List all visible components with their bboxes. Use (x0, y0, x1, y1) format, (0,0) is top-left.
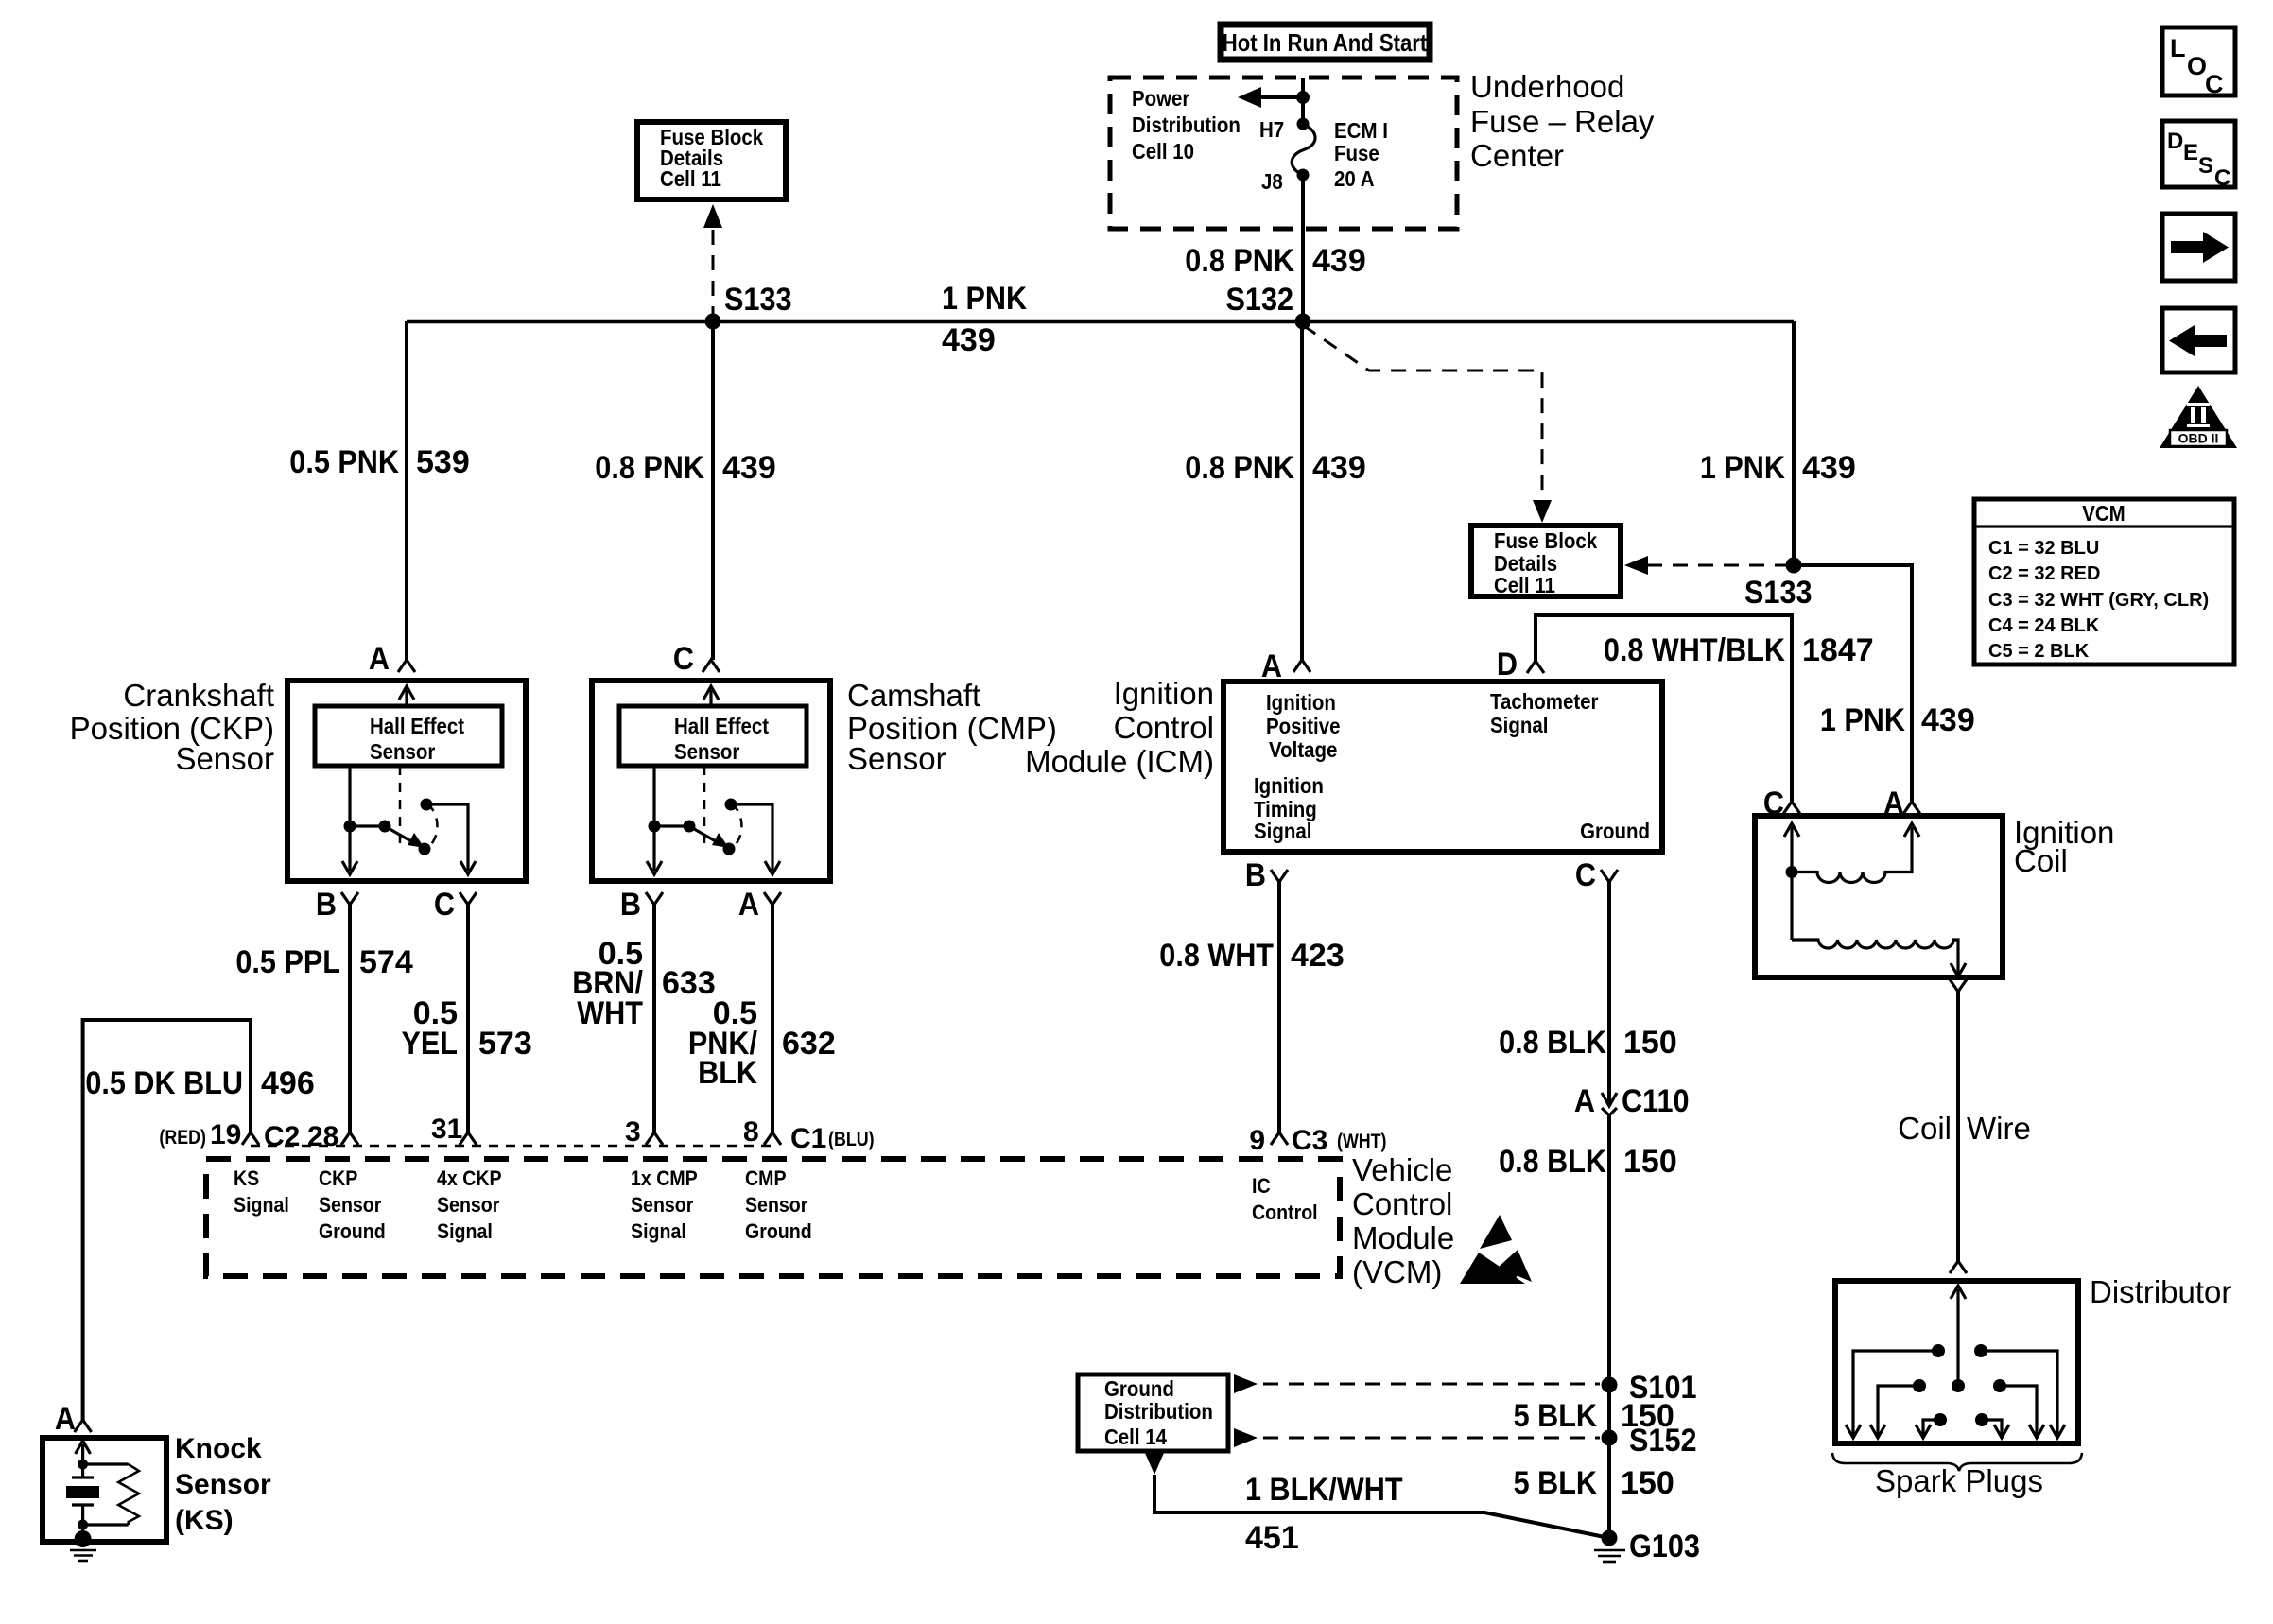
svg-text:Hall Effect: Hall Effect (674, 714, 769, 738)
svg-text:Cell 11: Cell 11 (1494, 573, 1555, 597)
svg-text:Sensor: Sensor (847, 741, 946, 776)
svg-text:0.5 PNK: 0.5 PNK (289, 444, 399, 480)
svg-text:Vehicle: Vehicle (1352, 1152, 1452, 1187)
svg-text:Sensor: Sensor (319, 1193, 382, 1217)
svg-text:0.8 WHT: 0.8 WHT (1159, 938, 1274, 974)
svg-text:Control: Control (1352, 1186, 1452, 1221)
svg-text:A: A (369, 641, 390, 677)
svg-text:A: A (738, 887, 759, 923)
svg-text:1847: 1847 (1802, 632, 1874, 668)
svg-text:632: 632 (782, 1026, 836, 1062)
svg-text:Fuse Block: Fuse Block (1494, 528, 1597, 553)
svg-text:Crankshaft: Crankshaft (123, 678, 274, 713)
svg-text:496: 496 (261, 1065, 315, 1101)
svg-text:Hot In Run And Start: Hot In Run And Start (1223, 28, 1428, 57)
svg-text:A: A (1261, 648, 1282, 684)
svg-text:C4 = 24 BLK: C4 = 24 BLK (1988, 615, 2100, 636)
svg-text:Signal: Signal (437, 1219, 493, 1243)
svg-text:439: 439 (942, 322, 996, 358)
svg-text:Distribution: Distribution (1104, 1399, 1213, 1424)
svg-text:C: C (2214, 165, 2230, 191)
svg-text:3: 3 (625, 1116, 641, 1148)
svg-text:J8: J8 (1261, 169, 1283, 194)
svg-text:439: 439 (1921, 702, 1975, 738)
svg-text:KS: KS (234, 1166, 259, 1190)
svg-text:0.8 PNK: 0.8 PNK (1185, 243, 1294, 279)
svg-text:Sensor: Sensor (437, 1193, 500, 1217)
svg-text:Power: Power (1132, 86, 1189, 111)
svg-text:O: O (2187, 52, 2207, 80)
svg-text:C2 = 32 RED: C2 = 32 RED (1988, 563, 2100, 584)
svg-text:5 BLK: 5 BLK (1514, 1398, 1598, 1434)
svg-text:Positive: Positive (1266, 714, 1341, 738)
svg-text:Voltage: Voltage (1269, 737, 1337, 762)
svg-text:Signal: Signal (234, 1193, 289, 1217)
svg-text:Control: Control (1252, 1201, 1318, 1224)
svg-text:Ignition: Ignition (1114, 676, 1214, 711)
svg-text:423: 423 (1291, 938, 1345, 974)
svg-text:C3: C3 (1292, 1125, 1327, 1156)
svg-text:Coil: Coil (2014, 843, 2068, 878)
svg-text:Signal: Signal (1490, 713, 1548, 737)
svg-text:C1: C1 (790, 1123, 826, 1154)
svg-text:C: C (673, 641, 694, 677)
svg-text:1x CMP: 1x CMP (631, 1166, 698, 1190)
svg-text:Wire: Wire (1967, 1111, 2031, 1146)
svg-text:1 PNK: 1 PNK (1700, 450, 1786, 486)
svg-text:S132: S132 (1226, 282, 1294, 318)
svg-text:Signal: Signal (1254, 819, 1311, 843)
svg-text:Control: Control (1114, 710, 1214, 745)
svg-text:Cell 14: Cell 14 (1104, 1425, 1167, 1449)
svg-text:Center: Center (1470, 138, 1564, 173)
svg-text:8: 8 (743, 1116, 759, 1148)
svg-text:28: 28 (307, 1121, 338, 1152)
svg-text:L: L (2170, 34, 2186, 62)
svg-text:574: 574 (359, 944, 413, 980)
svg-text:(VCM): (VCM) (1352, 1254, 1442, 1289)
svg-text:ECM I: ECM I (1334, 118, 1388, 143)
svg-text:YEL: YEL (402, 1026, 459, 1062)
svg-text:Signal: Signal (631, 1219, 686, 1243)
svg-text:Sensor: Sensor (631, 1193, 694, 1217)
svg-text:Fuse: Fuse (1334, 141, 1379, 165)
svg-text:Ground: Ground (1580, 819, 1650, 843)
svg-text:5 BLK: 5 BLK (1514, 1465, 1598, 1501)
svg-text:1 PNK: 1 PNK (942, 281, 1028, 317)
svg-text:CMP: CMP (745, 1166, 787, 1190)
svg-text:C5 = 2 BLK: C5 = 2 BLK (1988, 641, 2090, 662)
svg-text:Cell 11: Cell 11 (660, 166, 721, 191)
svg-text:BLK: BLK (698, 1055, 757, 1091)
svg-text:Distribution: Distribution (1132, 112, 1241, 137)
svg-text:1 PNK: 1 PNK (1820, 702, 1906, 738)
svg-text:Module (ICM): Module (ICM) (1025, 744, 1214, 779)
svg-text:C3 = 32 WHT (GRY, CLR): C3 = 32 WHT (GRY, CLR) (1988, 590, 2209, 611)
svg-text:633: 633 (662, 965, 716, 1001)
svg-text:OBD II: OBD II (2178, 431, 2219, 446)
svg-text:0.5 PPL: 0.5 PPL (235, 944, 340, 980)
svg-text:(RED): (RED) (159, 1127, 206, 1149)
svg-text:Fuse – Relay: Fuse – Relay (1470, 104, 1655, 139)
svg-text:C: C (2205, 70, 2224, 98)
svg-text:D: D (2167, 129, 2183, 154)
svg-text:4x CKP: 4x CKP (437, 1166, 502, 1190)
svg-text:Camshaft: Camshaft (847, 678, 980, 713)
svg-text:H7: H7 (1259, 117, 1284, 142)
svg-text:Ignition: Ignition (1266, 690, 1336, 715)
svg-text:A: A (1574, 1083, 1595, 1119)
svg-text:Knock: Knock (175, 1433, 262, 1464)
svg-text:Sensor: Sensor (745, 1193, 808, 1217)
svg-text:Sensor: Sensor (674, 739, 739, 764)
svg-text:Spark Plugs: Spark Plugs (1875, 1463, 2043, 1498)
svg-text:B: B (620, 887, 641, 923)
svg-text:VCM: VCM (2082, 501, 2126, 526)
svg-text:Sensor: Sensor (175, 741, 274, 776)
svg-text:CKP: CKP (319, 1166, 357, 1190)
svg-text:0.8 BLK: 0.8 BLK (1499, 1025, 1606, 1061)
svg-text:A: A (1883, 786, 1904, 821)
svg-text:0.8 WHT/BLK: 0.8 WHT/BLK (1604, 632, 1785, 668)
svg-text:1 BLK/WHT: 1 BLK/WHT (1245, 1472, 1403, 1508)
svg-text:Cell 10: Cell 10 (1132, 139, 1194, 164)
svg-text:150: 150 (1621, 1465, 1674, 1501)
svg-text:S133: S133 (724, 282, 792, 318)
svg-text:539: 539 (416, 444, 470, 480)
svg-text:C110: C110 (1622, 1083, 1690, 1119)
svg-text:Ground: Ground (745, 1219, 812, 1243)
svg-text:Underhood: Underhood (1470, 69, 1624, 104)
svg-text:Ground: Ground (1104, 1376, 1174, 1401)
svg-text:19: 19 (210, 1119, 241, 1150)
svg-text:C1 = 32 BLU: C1 = 32 BLU (1988, 538, 2099, 559)
svg-text:Hall Effect: Hall Effect (370, 714, 464, 738)
svg-text:C2: C2 (264, 1121, 300, 1152)
svg-text:D: D (1497, 647, 1518, 682)
svg-text:20 A: 20 A (1334, 166, 1375, 191)
svg-text:C: C (1575, 857, 1596, 893)
svg-text:E: E (2183, 140, 2198, 165)
svg-text:(WHT): (WHT) (1337, 1131, 1387, 1152)
svg-text:0.8 BLK: 0.8 BLK (1499, 1144, 1606, 1180)
svg-text:Module: Module (1352, 1220, 1454, 1255)
svg-text:Sensor: Sensor (370, 739, 435, 764)
svg-text:B: B (1245, 857, 1266, 893)
svg-text:Ground: Ground (319, 1219, 386, 1243)
svg-text:439: 439 (1802, 450, 1856, 486)
svg-text:C: C (1763, 786, 1784, 821)
svg-text:31: 31 (431, 1114, 462, 1145)
svg-text:150: 150 (1623, 1025, 1677, 1061)
svg-text:S: S (2198, 153, 2213, 179)
svg-text:WHT: WHT (577, 995, 643, 1031)
svg-text:9: 9 (1249, 1125, 1265, 1156)
svg-text:451: 451 (1245, 1520, 1299, 1556)
svg-text:G103: G103 (1629, 1529, 1700, 1564)
svg-text:0.8 PNK: 0.8 PNK (1185, 450, 1294, 486)
svg-text:Sensor: Sensor (175, 1469, 271, 1500)
svg-text:150: 150 (1621, 1398, 1674, 1434)
svg-text:150: 150 (1623, 1144, 1677, 1180)
svg-text:573: 573 (478, 1026, 532, 1062)
svg-text:(KS): (KS) (175, 1505, 234, 1536)
svg-text:Distributor: Distributor (2090, 1274, 2231, 1309)
svg-text:A: A (55, 1401, 76, 1437)
svg-text:0.5 DK BLU: 0.5 DK BLU (85, 1065, 243, 1101)
svg-text:B: B (316, 887, 337, 923)
svg-text:439: 439 (1312, 450, 1366, 486)
svg-text:439: 439 (1312, 243, 1366, 279)
svg-text:Coil: Coil (1898, 1111, 1952, 1146)
svg-text:0.8 PNK: 0.8 PNK (595, 450, 704, 486)
svg-text:C: C (434, 887, 455, 923)
svg-text:(BLU): (BLU) (828, 1129, 875, 1150)
svg-text:S133: S133 (1744, 575, 1813, 611)
svg-text:Ignition: Ignition (1254, 773, 1324, 798)
svg-text:IC: IC (1252, 1174, 1271, 1198)
svg-text:Tachometer: Tachometer (1490, 689, 1599, 714)
svg-text:439: 439 (722, 450, 776, 486)
